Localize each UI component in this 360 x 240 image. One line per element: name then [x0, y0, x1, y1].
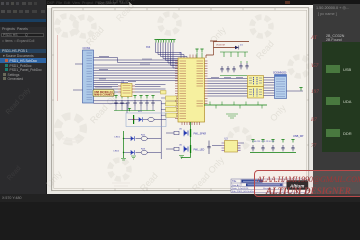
schematic sheet [52, 8, 310, 192]
wire J1 left stub [73, 64, 83, 90]
svg-text:Read: Read [138, 171, 160, 194]
red watermark box [254, 170, 360, 197]
power green top right of U1 [195, 49, 248, 58]
svg-text:LED2: LED2 [114, 151, 120, 153]
lower horizontal bus [94, 101, 162, 159]
svg-text:SODIMM200: SODIMM200 [273, 73, 287, 75]
green panel [322, 42, 360, 152]
active tab blue band [0, 19, 46, 23]
svg-text:U3: U3 [225, 138, 229, 141]
svg-text:Size A4: Size A4 [232, 184, 240, 187]
left panel [0, 0, 46, 194]
faint watermark traces on dark chrome [98, 0, 135, 8]
ground below U1 [179, 156, 184, 159]
svg-text:U1: U1 [179, 53, 183, 55]
svg-text:U5: U5 [179, 128, 183, 130]
opto block U10 in box [126, 108, 166, 126]
watermark box edge artifact [57, 35, 58, 101]
green bus below U1 [181, 122, 191, 158]
power net VDD brown [206, 41, 249, 58]
svg-text:R21: R21 [138, 111, 143, 113]
IC U1 [175, 53, 208, 126]
svg-text:Date: 1-Jul-2010: Date: 1-Jul-2010 [232, 187, 249, 190]
connector J1 [83, 46, 94, 103]
power port bundle above U1 [146, 40, 196, 69]
wires U1 to RN [208, 77, 248, 96]
svg-text:VDDIOM: VDDIOM [216, 45, 225, 47]
svg-text:D1: D1 [240, 45, 244, 47]
svg-text:Only: Only [44, 169, 64, 190]
svg-text:Only: Only [268, 103, 288, 124]
opto coupler U5 [166, 128, 206, 137]
Altium logo [287, 180, 309, 190]
watermark recycle symbols [57, 14, 309, 186]
svg-text:C10 C11 C12 C13 C14: C10 C11 C12 C13 C14 [252, 141, 275, 143]
resistor network RN1 [248, 76, 264, 87]
svg-text:PWL_LED: PWL_LED [194, 149, 205, 151]
svg-text:Read: Read [114, 1, 136, 24]
status bar [0, 194, 360, 203]
sheet border frame [52, 8, 309, 191]
net label right [293, 134, 304, 138]
toolbar icon rows [1, 2, 45, 6]
watermark read-only texts [44, 1, 288, 194]
top title/menu bar [0, 0, 360, 5]
svg-text:Read Only: Read Only [190, 155, 226, 194]
opto coupler U6 [166, 144, 205, 153]
LED row D3 [115, 131, 162, 158]
IC U3 bottom [212, 138, 244, 153]
svg-text:MINI-B CONNECT: MINI-B CONNECT [94, 94, 115, 97]
ground at green rail [121, 159, 126, 161]
red watermark fragments on right edge [311, 35, 317, 41]
selected doc row [0, 58, 46, 63]
label box PERIPHERAL [93, 90, 115, 97]
title block [231, 179, 308, 193]
LED row D4 [114, 149, 162, 159]
editor gutter between panel and sheet [46, 5, 49, 194]
svg-text:USB_DP: USB_DP [293, 134, 304, 138]
project row [0, 49, 46, 54]
capacitor C8 [207, 141, 210, 155]
svg-text:Title: Title [232, 180, 237, 183]
projects panel header [2, 27, 28, 31]
IC U2 small [118, 81, 135, 97]
wires RN to J2 [264, 78, 275, 96]
capacitor row C20-C26 [114, 96, 155, 111]
net label boxes column left of U1 [161, 91, 177, 118]
capacitor bank bottom [250, 140, 296, 153]
svg-text:Read: Read [254, 39, 276, 62]
svg-text:U2: U2 [121, 81, 125, 84]
paper white margins [47, 5, 313, 194]
svg-text:File: PSD1_HS.SchDoc: File: PSD1_HS.SchDoc [232, 191, 256, 193]
svg-text:LED1: LED1 [115, 137, 121, 139]
right dark panel area [313, 4, 360, 194]
node VBUS [287, 88, 304, 92]
resistor network RN2 [248, 87, 264, 99]
wire J1 bottom drop [94, 103, 128, 113]
svg-text:Only: Only [208, 25, 228, 46]
svg-text:CON1: CON1 [83, 46, 91, 50]
svg-text:PWL_SPKR: PWL_SPKR [194, 133, 207, 135]
net label dashes over bus [99, 56, 152, 81]
capacitor row right of U1 [220, 61, 249, 76]
svg-text:Read: Read [84, 25, 106, 48]
connector J2 [273, 73, 287, 99]
svg-text:U6: U6 [179, 144, 183, 146]
diode D1 on VDD rail [235, 45, 244, 50]
ground rail below U1 right [204, 102, 267, 119]
svg-text:3V3: 3V3 [146, 46, 151, 49]
wire bus J1 to U1 [94, 58, 179, 93]
